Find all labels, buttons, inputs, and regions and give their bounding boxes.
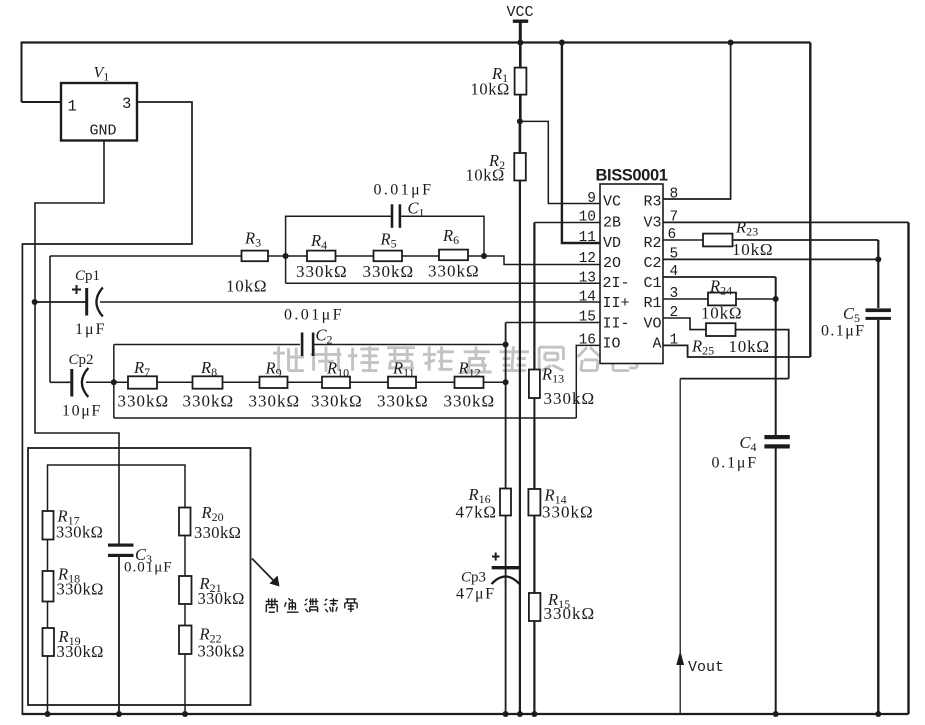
svg-text:10μF: 10μF	[62, 403, 102, 420]
svg-text:C2: C2	[643, 255, 661, 272]
svg-text:R24: R24	[709, 277, 732, 298]
resistor R9	[260, 377, 288, 388]
svg-text:330kΩ: 330kΩ	[377, 392, 429, 411]
wire R20 to R21	[184, 536, 186, 577]
junction VCC rail / R1	[517, 40, 523, 46]
svg-text:10kΩ: 10kΩ	[471, 80, 510, 99]
arrow Vout	[676, 651, 684, 666]
wire node B to pin 12 2O	[484, 256, 600, 265]
svg-text:V1: V1	[94, 65, 110, 84]
wire node D to R2	[519, 121, 522, 153]
resistor R25	[706, 323, 736, 336]
svg-text:C2: C2	[316, 326, 333, 347]
svg-text:330kΩ: 330kΩ	[444, 392, 496, 411]
svg-text:14: 14	[579, 290, 596, 306]
svg-text:R25: R25	[691, 337, 714, 358]
junction VCC rail / pin 8	[728, 40, 734, 46]
svg-text:47kΩ: 47kΩ	[456, 503, 497, 522]
wire R24 to C4 line	[736, 298, 776, 300]
wire mid node to R14	[533, 418, 535, 489]
wire node A to pin 13 2I-	[286, 282, 600, 284]
svg-text:11: 11	[579, 230, 596, 246]
svg-text:2O: 2O	[603, 255, 621, 272]
svg-text:10kΩ: 10kΩ	[732, 240, 773, 259]
resistor R21	[179, 576, 192, 604]
wire pin 16 IO riser	[576, 345, 600, 418]
svg-text:V3: V3	[643, 215, 661, 232]
wire Cp2 input	[50, 381, 70, 383]
wire R9 to R10	[288, 381, 323, 383]
capacitor Cp2	[70, 368, 88, 397]
svg-text:3: 3	[122, 95, 131, 113]
resistor R7	[128, 376, 157, 388]
wire R21 to R22	[184, 604, 186, 626]
svg-text:330kΩ: 330kΩ	[428, 262, 480, 281]
junction node after R6 / C1	[481, 253, 487, 259]
resistor R14	[528, 489, 540, 516]
svg-text:GND: GND	[90, 123, 117, 140]
svg-text:0.01μF: 0.01μF	[374, 182, 434, 199]
wire 2B node down to R13	[533, 223, 535, 370]
wire R11 to R12	[416, 381, 455, 383]
svg-text:R1: R1	[643, 295, 661, 312]
svg-text:330kΩ: 330kΩ	[57, 580, 104, 599]
wire VCC to R1	[519, 43, 522, 68]
svg-text:10kΩ: 10kΩ	[729, 337, 770, 356]
svg-text:A: A	[652, 336, 661, 353]
svg-text:330kΩ: 330kΩ	[118, 392, 170, 411]
capacitor C3	[108, 544, 134, 558]
svg-text:C4: C4	[740, 433, 757, 454]
junction C5 ground	[875, 711, 881, 717]
wire bottom of R7-R12 loop to pin16 riser	[114, 417, 577, 419]
wire R16 to Cp3	[505, 516, 507, 586]
capacitor C5	[866, 308, 891, 320]
wire pin 4 C1 right	[663, 276, 776, 278]
junction R15 ground	[531, 711, 537, 717]
svg-text:R2: R2	[643, 235, 661, 252]
wire pin 10 2B to divider	[534, 222, 600, 224]
svg-text:VC: VC	[603, 194, 621, 211]
arrow to band-pass filter	[252, 559, 280, 587]
svg-text:2I-: 2I-	[603, 275, 630, 292]
svg-text:330kΩ: 330kΩ	[198, 589, 245, 608]
resistor R16	[500, 489, 511, 516]
junction node C / C2	[503, 342, 509, 348]
IC U1 BISS0001 box	[600, 184, 663, 364]
wire C3 bottom to ground rail	[118, 557, 120, 714]
svg-text:VO: VO	[643, 316, 661, 333]
svg-text:0.1μF: 0.1μF	[821, 323, 865, 340]
wire V1 GND pin down-left-down to C3	[35, 141, 119, 544]
resistor R11	[388, 377, 416, 388]
svg-text:R3: R3	[244, 229, 261, 250]
wire R18 to R19	[47, 602, 49, 629]
wire R6 to node B	[468, 255, 484, 257]
svg-text:330kΩ: 330kΩ	[542, 503, 594, 522]
svg-text:13: 13	[579, 271, 596, 287]
wire pin 6 R2 to R23	[663, 239, 703, 241]
svg-text:R6: R6	[442, 226, 459, 247]
resistor R12	[455, 377, 484, 388]
resistor R13	[529, 370, 540, 399]
svg-text:Cp2: Cp2	[69, 352, 94, 368]
wire R3/Cp2 feed vertical	[49, 256, 51, 382]
resistor R24	[708, 293, 736, 306]
svg-text:BISS0001: BISS0001	[596, 167, 668, 185]
wire node C vertical to R16	[505, 323, 507, 489]
svg-text:0.01μF: 0.01μF	[124, 560, 173, 576]
junction C4 line / R24	[773, 296, 779, 302]
svg-text:330kΩ: 330kΩ	[544, 389, 596, 408]
wire Vout vertical to ground rail	[679, 379, 681, 714]
resistor R22	[179, 626, 192, 655]
wire R3 to node A	[268, 255, 307, 257]
wire node C to pin 15 1I-	[506, 322, 600, 324]
svg-text:R23: R23	[735, 218, 758, 239]
junction GND line / Cp1 input	[32, 299, 38, 305]
svg-text:330kΩ: 330kΩ	[57, 642, 104, 661]
resistor R2	[514, 153, 526, 181]
svg-text:330kΩ: 330kΩ	[311, 392, 363, 411]
wire right edge down to ground rail	[907, 222, 909, 714]
watermark 杭州将睿科技有限公司 (approximated strokes)	[273, 346, 637, 372]
wire Cp1 output to pin 14 1I+	[100, 301, 600, 303]
wire node D to pin 9 VC	[520, 121, 600, 203]
wire R12 to node C	[484, 381, 506, 383]
svg-text:VD: VD	[603, 235, 621, 252]
wire Cp3 to ground rail	[505, 581, 507, 714]
junction Cp3 ground	[503, 711, 509, 717]
wire VCC top rail	[22, 41, 811, 43]
wire Cp1 input	[35, 301, 86, 303]
svg-text:R8: R8	[200, 358, 217, 379]
wire R1 to node D	[519, 95, 522, 122]
resistor R6	[439, 250, 468, 261]
svg-text:Cp3: Cp3	[461, 570, 486, 586]
wire R17/R20 top link	[48, 465, 186, 511]
svg-text:10kΩ: 10kΩ	[466, 166, 505, 185]
svg-text:II-: II-	[603, 316, 630, 333]
svg-text:VCC: VCC	[507, 4, 534, 21]
resistor R15	[529, 593, 541, 621]
wire R23 to C5 node	[733, 239, 879, 241]
power symbol VCC	[513, 20, 528, 43]
wire R17 to R18	[47, 540, 49, 572]
wire R10 to R11	[350, 381, 388, 383]
wire VCC rail branch to pin 11 VD	[562, 43, 600, 244]
wire C4 to ground rail	[775, 449, 777, 715]
wire node A up and C1 branch top	[286, 216, 391, 283]
wire R19 to ground rail	[47, 656, 49, 714]
wire C2 right to node C	[313, 344, 505, 346]
svg-text:R5: R5	[380, 230, 397, 251]
wire C5 node vertical	[877, 240, 879, 308]
svg-text:R4: R4	[310, 231, 327, 252]
wire C2 loop left edge	[113, 345, 115, 419]
junction R19 ground	[45, 711, 51, 717]
wire R22 to ground rail	[184, 654, 186, 714]
wire pin 3 R1 to R24	[663, 298, 708, 300]
svg-text:1μF: 1μF	[75, 321, 106, 338]
junction C3 ground	[116, 711, 122, 717]
svg-text:II+: II+	[603, 295, 630, 312]
wire C5 to ground rail	[877, 320, 879, 714]
junction node after R3	[283, 253, 289, 259]
wire pin 1 A jog	[663, 345, 810, 357]
capacitor Cp1	[72, 285, 103, 317]
resistor R17	[43, 511, 54, 540]
svg-text:16: 16	[579, 333, 596, 349]
svg-text:330kΩ: 330kΩ	[249, 392, 301, 411]
svg-text:10: 10	[579, 210, 596, 226]
filter enclosure box	[28, 448, 251, 705]
wire left edge top (rail to V1 pin1)	[21, 42, 23, 103]
svg-text:0.01μF: 0.01μF	[284, 307, 344, 324]
resistor R8	[193, 376, 223, 388]
junction node D (R1/R2/VC)	[517, 118, 523, 124]
resistor R18	[43, 571, 54, 602]
wire pin 5 C2 to C5 node	[663, 258, 878, 260]
wire R25 output down to Vout line	[736, 330, 789, 379]
svg-text:IO: IO	[603, 336, 621, 353]
resistor R20	[179, 508, 191, 536]
wire A riser to VCC rail	[809, 43, 811, 358]
svg-text:9: 9	[587, 191, 596, 207]
wire pin 7 V3 to right edge	[663, 221, 909, 223]
wire R8 to R9	[223, 381, 260, 383]
regulator V1 box	[61, 83, 137, 141]
wire R13 to mid node	[533, 398, 535, 418]
resistor R19	[43, 628, 55, 656]
wire Vout horizontal	[680, 378, 789, 380]
junction Cp2 output node	[111, 379, 117, 385]
junction C5 node / pin 5	[875, 256, 881, 262]
label band-pass filter (Chinese)	[266, 598, 358, 612]
svg-text:330kΩ: 330kΩ	[296, 262, 348, 281]
svg-text:10kΩ: 10kΩ	[226, 277, 267, 296]
svg-text:12: 12	[579, 251, 596, 267]
wire R4 to R5	[336, 255, 374, 257]
wire pin 2 VO to R25	[663, 318, 706, 330]
wire V1 pin 3 to left edge down to ground rail	[22, 102, 192, 714]
svg-text:Cp1: Cp1	[75, 268, 100, 284]
svg-text:10kΩ: 10kΩ	[701, 304, 742, 323]
svg-text:15: 15	[579, 310, 596, 326]
wire R5 to R6	[402, 255, 439, 257]
capacitor C1	[391, 204, 402, 228]
wire C1 right to node B	[401, 216, 484, 256]
junction R2 ground	[517, 711, 523, 717]
junction R22 ground	[182, 711, 188, 717]
wire C1 node down to C4	[775, 277, 777, 435]
junction node C / R12	[503, 379, 509, 385]
resistor R3	[242, 251, 269, 262]
svg-text:47μF: 47μF	[456, 586, 495, 603]
svg-text:8: 8	[670, 187, 679, 203]
capacitor C2	[301, 333, 315, 357]
svg-text:330kΩ: 330kΩ	[544, 604, 596, 623]
svg-text:Vout: Vout	[688, 659, 724, 676]
junction VCC rail / VD branch	[559, 40, 565, 46]
resistor R4	[307, 251, 336, 262]
resistor R5	[374, 251, 403, 262]
svg-text:C1: C1	[643, 275, 661, 292]
resistor R10	[322, 377, 350, 388]
wire R14 to R15	[533, 516, 535, 594]
svg-text:330kΩ: 330kΩ	[183, 392, 235, 411]
wire node to R3	[50, 255, 242, 257]
wire C2 branch top left	[114, 344, 300, 346]
svg-text:0.1μF: 0.1μF	[712, 455, 758, 472]
svg-text:330kΩ: 330kΩ	[363, 262, 415, 281]
wire R15 to ground rail	[533, 621, 535, 714]
svg-text:R3: R3	[643, 194, 661, 211]
svg-text:2B: 2B	[603, 215, 621, 232]
svg-text:330kΩ: 330kΩ	[56, 523, 103, 542]
wire ground bottom rail	[22, 713, 909, 715]
resistor R1	[515, 68, 527, 95]
svg-text:R7: R7	[133, 358, 150, 379]
svg-text:R20: R20	[201, 503, 224, 524]
svg-text:330kΩ: 330kΩ	[194, 523, 241, 542]
wire R2 to ground rail	[519, 181, 521, 715]
capacitor Cp3	[492, 553, 520, 585]
wire V1 pin 1	[22, 101, 62, 103]
resistor R23	[703, 234, 733, 247]
wire pin 8 R3 to VCC rail	[663, 43, 731, 200]
wire Cp2 output to R7	[86, 381, 128, 383]
capacitor C4	[764, 435, 789, 449]
svg-text:330kΩ: 330kΩ	[198, 642, 245, 661]
junction C4 ground	[773, 711, 779, 717]
wire R7 to R8	[157, 381, 193, 383]
svg-text:1: 1	[68, 98, 77, 116]
